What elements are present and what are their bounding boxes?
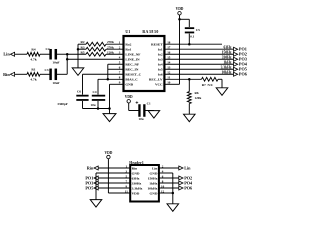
- wire pin6 stub: [108, 68, 124, 70]
- svg-text:PO5: PO5: [85, 185, 93, 190]
- power VDD header: [105, 151, 113, 159]
- svg-text:Ro2: Ro2: [125, 43, 131, 47]
- wire C6 down to gnd bus: [82, 101, 84, 109]
- port Lin bottom: [179, 165, 191, 170]
- svg-text:RESET: RESET: [151, 43, 163, 47]
- svg-text:Lin: Lin: [3, 52, 10, 57]
- svg-text:LINE_IN: LINE_IN: [125, 58, 140, 62]
- wire VDD C1 stem: [128, 103, 130, 111]
- junction node A row3: [66, 53, 69, 56]
- port PO4 bottom: [179, 180, 193, 185]
- svg-text:VDD: VDD: [132, 191, 140, 195]
- svg-text:63Hz: 63Hz: [224, 45, 232, 49]
- wire pin4 down to pin12: [172, 173, 174, 193]
- svg-text:10u: 10u: [138, 117, 143, 121]
- wire C3 to vertical: [56, 73, 67, 75]
- port Rin: [3, 72, 14, 77]
- svg-text:C3: C3: [44, 68, 48, 72]
- svg-text:3.3kHz: 3.3kHz: [221, 65, 232, 69]
- ground header left: [90, 200, 102, 208]
- capacitor C3: [49, 69, 57, 81]
- wire Rin to R1: [15, 73, 27, 75]
- port Lin: [3, 52, 14, 57]
- capacitor C4: [92, 95, 105, 101]
- port PO2: [234, 52, 247, 57]
- svg-text:330Hz: 330Hz: [132, 181, 142, 185]
- svg-text:R5: R5: [81, 50, 85, 54]
- svg-text:270k: 270k: [107, 45, 114, 49]
- connector Header1 body: [130, 165, 159, 202]
- svg-text:fo4: fo4: [158, 63, 163, 67]
- wire pin9 left: [110, 83, 124, 85]
- svg-text:10kHz: 10kHz: [148, 186, 158, 190]
- wire C2 to node A: [56, 53, 67, 55]
- junction row2 ground vertical: [77, 48, 80, 51]
- wire pin5 stub: [108, 63, 124, 65]
- wire R6 top: [188, 79, 190, 91]
- wire pin2 to Lin port: [159, 167, 179, 169]
- svg-text:fo3: fo3: [158, 58, 163, 62]
- wire row2 to R3: [78, 48, 86, 50]
- svg-text:1kHz: 1kHz: [149, 181, 158, 185]
- wire header to PO6: [159, 187, 179, 189]
- port PO3: [234, 57, 247, 62]
- wire pin7 left: [83, 73, 124, 75]
- svg-text:PO6: PO6: [239, 72, 247, 77]
- ground after C1: [148, 111, 160, 119]
- wire VDD header down: [107, 159, 109, 193]
- wire RESET pin18: [164, 43, 222, 45]
- wire R1 to C3: [40, 73, 50, 75]
- svg-text:GND: GND: [150, 171, 158, 175]
- wire R3 to pin2: [106, 48, 124, 50]
- wire header to PO2: [159, 177, 179, 179]
- wire fo5 output: [164, 68, 233, 70]
- svg-text:VDD: VDD: [105, 151, 113, 155]
- wire R6 bottom: [188, 104, 190, 115]
- svg-text:GND: GND: [132, 171, 140, 175]
- svg-text:270k: 270k: [107, 40, 114, 44]
- svg-text:REC_IN: REC_IN: [125, 68, 139, 72]
- svg-text:R1: R1: [31, 67, 35, 71]
- svg-text:VDD: VDD: [125, 95, 133, 99]
- svg-text:R7 N/C: R7 N/C: [202, 83, 214, 87]
- resistor R2: [86, 42, 106, 46]
- svg-text:R4: R4: [31, 48, 35, 52]
- svg-text:4.7k: 4.7k: [30, 58, 36, 62]
- ground under R6: [184, 114, 196, 122]
- resistor R1: [27, 72, 40, 76]
- resistor R4: [27, 52, 40, 56]
- svg-text:10uF: 10uF: [52, 81, 59, 85]
- svg-text:3300pF: 3300pF: [57, 102, 67, 106]
- svg-text:150Hz: 150Hz: [222, 50, 232, 54]
- svg-text:120k: 120k: [195, 96, 202, 100]
- svg-text:10u: 10u: [90, 103, 95, 107]
- op-amp U1 BA3830 IC body: [124, 36, 165, 91]
- capacitor C1: [138, 104, 145, 117]
- svg-text:fo6: fo6: [158, 73, 163, 77]
- wire fo3 output: [164, 58, 233, 60]
- junction REC_LV R6: [188, 78, 191, 81]
- junction bracket on row8: [107, 78, 110, 81]
- wire bracket vertical pins 5-6-8: [107, 64, 109, 79]
- port PO2 bottom: [179, 175, 192, 180]
- port PO4: [234, 62, 248, 67]
- wire fo4 output: [164, 63, 233, 65]
- svg-text:BA3830: BA3830: [142, 30, 159, 34]
- wire R7 corner down: [221, 79, 223, 88]
- svg-text:U1: U1: [125, 30, 130, 34]
- power VDD decoupling: [125, 95, 133, 103]
- resistor R6: [187, 92, 191, 104]
- wire PO3 to header: [98, 182, 130, 184]
- wire down to ground right: [172, 193, 174, 204]
- wire bus to ground: [109, 109, 111, 114]
- wire fo6 output: [164, 73, 233, 75]
- port PO5: [234, 67, 247, 72]
- wire header pin3 gnd: [96, 172, 130, 174]
- port PO6: [234, 72, 247, 77]
- ground header right: [167, 204, 179, 212]
- svg-text:4.7k: 4.7k: [30, 78, 36, 82]
- plus polarity C1: [136, 101, 139, 104]
- svg-text:C4: C4: [92, 90, 96, 94]
- wire pin8 down to C4: [97, 79, 99, 94]
- svg-text:C5: C5: [196, 28, 200, 32]
- wire R5 to pin3: [106, 53, 124, 55]
- svg-text:10uF: 10uF: [52, 60, 59, 64]
- wire R4 to C2: [40, 53, 50, 55]
- svg-text:BIAS_C: BIAS_C: [125, 78, 138, 82]
- svg-text:C1: C1: [147, 101, 151, 105]
- junction pin9 bus: [108, 107, 111, 110]
- wire REC_LV: [164, 78, 201, 80]
- svg-text:Lin: Lin: [184, 165, 191, 170]
- svg-text:0.1: 0.1: [190, 34, 194, 38]
- svg-text:330Hz: 330Hz: [222, 55, 232, 59]
- resistor R7: [202, 77, 219, 81]
- svg-text:VDD: VDD: [176, 7, 184, 11]
- wire fo2 output: [164, 53, 233, 55]
- junction pin12 ground: [172, 192, 175, 195]
- port PO1: [234, 47, 247, 52]
- svg-text:C6: C6: [77, 90, 81, 94]
- capacitor C5: [185, 27, 194, 33]
- svg-text:RESET_C: RESET_C: [125, 73, 141, 77]
- resistor R5: [86, 52, 106, 56]
- wire VDD vertical to VCC: [179, 19, 181, 84]
- wire R7 to corner: [218, 78, 222, 80]
- svg-text:10kHz: 10kHz: [222, 70, 232, 74]
- wire pin3 gnd down: [95, 173, 97, 200]
- wire C5 branch down: [188, 19, 190, 27]
- svg-text:R3: R3: [81, 45, 85, 49]
- wire C1 to ground: [145, 110, 154, 112]
- junction VDD node: [178, 18, 181, 21]
- svg-text:3.3kHz: 3.3kHz: [132, 186, 143, 190]
- svg-text:Rin: Rin: [3, 72, 10, 77]
- svg-text:fo1: fo1: [158, 48, 163, 52]
- svg-text:Rin: Rin: [132, 166, 138, 170]
- svg-text:Lin: Lin: [152, 166, 157, 170]
- wire row1 corner to R2: [78, 43, 86, 45]
- wire row4 node to pin4: [67, 58, 123, 60]
- junction row4: [66, 58, 69, 61]
- svg-text:Ro1: Ro1: [125, 48, 131, 52]
- wire VDD stem: [179, 15, 181, 19]
- ground after R7: [216, 88, 228, 96]
- svg-text:Rin: Rin: [87, 165, 94, 170]
- wire R2 to pin1: [106, 43, 124, 45]
- wire VCC pin10: [164, 83, 179, 85]
- wire C5 to RESET wire: [188, 34, 190, 45]
- wire grounded vertical: [77, 44, 79, 68]
- port PO3 bottom: [85, 180, 98, 185]
- svg-text:fo5: fo5: [158, 68, 163, 72]
- svg-text:150Hz: 150Hz: [148, 176, 158, 180]
- capacitor C6: [76, 95, 88, 101]
- ground under R2 R3 vertical: [72, 68, 84, 76]
- wire VDD to pin11: [108, 192, 130, 194]
- wire Rin to header pin1: [98, 167, 130, 169]
- power VDD top: [176, 7, 184, 15]
- resistor R3: [86, 47, 106, 51]
- port PO5 bottom: [85, 185, 98, 190]
- ground analog bus: [103, 114, 116, 122]
- capacitor C2: [49, 49, 57, 60]
- port Rin bottom: [87, 165, 98, 170]
- wire pin9 down: [109, 84, 111, 108]
- wire pin4 right: [159, 172, 173, 174]
- svg-text:REC_NF: REC_NF: [125, 63, 139, 67]
- svg-text:C2: C2: [45, 47, 49, 51]
- wire fo1 output: [164, 48, 233, 50]
- wire pin7 down to C6: [82, 74, 84, 94]
- wire vertical Rin up to node A: [66, 54, 68, 74]
- svg-text:R6: R6: [195, 91, 199, 95]
- svg-text:fo2: fo2: [158, 53, 163, 57]
- svg-text:63Hz: 63Hz: [132, 176, 140, 180]
- wire pin12 right: [159, 192, 173, 194]
- wire PO5 to header: [98, 187, 130, 189]
- wire PO1 to header: [98, 177, 130, 179]
- svg-text:PO6: PO6: [184, 185, 192, 190]
- svg-text:1kHz: 1kHz: [223, 60, 232, 64]
- junction C4 bus: [97, 107, 100, 110]
- wire header to PO4: [159, 182, 179, 184]
- svg-text:R2: R2: [81, 40, 85, 44]
- wire pin8 left: [98, 78, 124, 80]
- svg-text:LINE_NF: LINE_NF: [125, 53, 140, 57]
- wire Lin to R4: [15, 53, 27, 55]
- port PO1 bottom: [85, 175, 98, 180]
- wire VDD to C5 branch: [180, 18, 190, 20]
- wire node A to R5: [67, 53, 86, 55]
- junction C5 RESET: [188, 43, 191, 46]
- wire C4 down to gnd bus: [97, 101, 99, 109]
- wire VDD to C1: [129, 110, 140, 112]
- port PO6 bottom: [179, 185, 192, 190]
- svg-text:REC_LV: REC_LV: [149, 78, 163, 82]
- svg-text:GND: GND: [125, 83, 133, 87]
- svg-text:GND: GND: [150, 191, 158, 195]
- wire ground bus: [83, 108, 110, 110]
- svg-text:VCC: VCC: [155, 83, 163, 87]
